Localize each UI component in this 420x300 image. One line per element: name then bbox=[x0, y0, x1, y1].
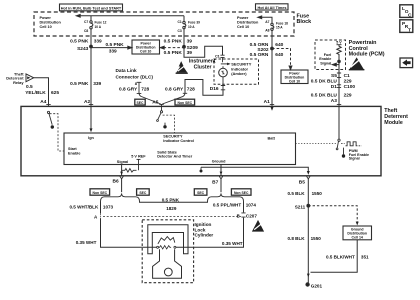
svg-text:39: 39 bbox=[187, 50, 193, 56]
svg-text:728: 728 bbox=[141, 86, 149, 92]
svg-text:0.35 WHT: 0.35 WHT bbox=[222, 241, 243, 246]
svg-text:C3: C3 bbox=[177, 29, 181, 33]
svg-text:229: 229 bbox=[344, 79, 352, 85]
svg-text:Fuse 12: Fuse 12 bbox=[95, 20, 107, 24]
svg-text:Cell 10: Cell 10 bbox=[237, 25, 249, 29]
svg-text:728: 728 bbox=[187, 86, 195, 92]
svg-text:Signal: Signal bbox=[117, 160, 128, 164]
svg-text:(Amber): (Amber) bbox=[231, 71, 247, 76]
svg-text:Batt: Batt bbox=[268, 137, 276, 141]
svg-text:0.5 PNK: 0.5 PNK bbox=[162, 197, 180, 202]
svg-text:Cell 10: Cell 10 bbox=[40, 25, 52, 29]
svg-text:B7: B7 bbox=[212, 179, 218, 185]
svg-text:Cell 10: Cell 10 bbox=[289, 79, 300, 83]
svg-text:Distribution: Distribution bbox=[237, 20, 259, 24]
svg-text:A3: A3 bbox=[331, 98, 337, 104]
svg-text:Connector (DLC): Connector (DLC) bbox=[116, 75, 154, 80]
svg-text:Enable: Enable bbox=[319, 57, 331, 61]
svg-text:1074: 1074 bbox=[246, 203, 257, 208]
svg-text:625: 625 bbox=[51, 90, 59, 96]
svg-text:0.5 DK BLU: 0.5 DK BLU bbox=[311, 79, 338, 85]
svg-text:B5: B5 bbox=[299, 180, 305, 186]
svg-text:Non SEC: Non SEC bbox=[234, 191, 249, 195]
svg-text:YEL/BLK: YEL/BLK bbox=[25, 90, 46, 96]
svg-text:10 A: 10 A bbox=[95, 25, 102, 29]
svg-text:Signal: Signal bbox=[349, 157, 360, 161]
svg-text:C207: C207 bbox=[246, 213, 257, 218]
svg-text:5 V: 5 V bbox=[336, 41, 342, 45]
svg-text:0.5 ORN: 0.5 ORN bbox=[250, 52, 269, 58]
svg-text:A2: A2 bbox=[84, 99, 90, 105]
svg-text:C1: C1 bbox=[344, 73, 350, 79]
svg-text:Ground: Ground bbox=[212, 159, 226, 163]
svg-text:0.35 WHT: 0.35 WHT bbox=[76, 240, 97, 245]
svg-text:39: 39 bbox=[187, 38, 193, 44]
svg-text:S211: S211 bbox=[295, 204, 306, 209]
svg-text:Signal: Signal bbox=[320, 62, 331, 66]
svg-text:Module (PCM): Module (PCM) bbox=[349, 51, 385, 57]
svg-text:S243: S243 bbox=[77, 46, 89, 52]
svg-text:Data Link: Data Link bbox=[116, 68, 137, 73]
svg-text:229: 229 bbox=[344, 93, 352, 99]
svg-text:Cell 10: Cell 10 bbox=[140, 49, 151, 53]
svg-text:640: 640 bbox=[275, 52, 283, 58]
svg-text:0.8 BLK: 0.8 BLK bbox=[287, 236, 305, 241]
svg-text:Detector And Timer: Detector And Timer bbox=[157, 155, 193, 159]
svg-text:T: T bbox=[408, 27, 411, 33]
svg-text:SEC: SEC bbox=[197, 191, 205, 195]
svg-text:Ign: Ign bbox=[88, 136, 94, 140]
svg-text:0.5 PNK: 0.5 PNK bbox=[164, 38, 183, 44]
svg-text:0.5 PNK: 0.5 PNK bbox=[106, 42, 125, 48]
svg-text:1829: 1829 bbox=[166, 206, 177, 211]
svg-text:Cell 14: Cell 14 bbox=[352, 235, 363, 239]
svg-text:SEC: SEC bbox=[137, 101, 145, 105]
svg-text:A1: A1 bbox=[264, 99, 270, 105]
svg-text:C7: C7 bbox=[84, 20, 88, 24]
svg-text:Start: Start bbox=[68, 147, 77, 151]
svg-text:C1: C1 bbox=[215, 55, 220, 59]
svg-text:1550: 1550 bbox=[312, 191, 323, 196]
svg-text:SEC: SEC bbox=[139, 191, 147, 195]
svg-text:Enable: Enable bbox=[68, 151, 80, 155]
svg-text:0.5 DK BLU: 0.5 DK BLU bbox=[311, 93, 338, 99]
svg-text:Distribution: Distribution bbox=[40, 21, 62, 25]
svg-text:S202: S202 bbox=[257, 47, 269, 53]
svg-text:Cylinder: Cylinder bbox=[195, 233, 214, 238]
svg-text:0.5 BLK/WHT: 0.5 BLK/WHT bbox=[326, 255, 355, 260]
svg-text:C8: C8 bbox=[84, 29, 88, 33]
svg-text:Non SEC: Non SEC bbox=[178, 101, 193, 105]
svg-text:1550: 1550 bbox=[311, 236, 322, 241]
svg-text:D1: D1 bbox=[331, 84, 337, 90]
svg-text:0.5 PNK: 0.5 PNK bbox=[70, 81, 89, 87]
svg-text:Instrument: Instrument bbox=[189, 58, 216, 64]
svg-text:0.8 GRY: 0.8 GRY bbox=[119, 86, 138, 92]
svg-text:0.5 PNK: 0.5 PNK bbox=[164, 50, 183, 56]
svg-text:1073: 1073 bbox=[103, 205, 114, 210]
svg-text:C: C bbox=[408, 12, 412, 18]
svg-text:Block: Block bbox=[297, 19, 312, 25]
svg-text:A8: A8 bbox=[265, 28, 269, 32]
svg-text:Fuel: Fuel bbox=[324, 53, 332, 57]
svg-text:SECURITY: SECURITY bbox=[163, 134, 183, 138]
svg-text:10 A: 10 A bbox=[188, 25, 195, 29]
svg-text:15 A: 15 A bbox=[276, 26, 283, 30]
svg-text:339: 339 bbox=[109, 49, 117, 55]
svg-text:0.8 GRY: 0.8 GRY bbox=[165, 86, 184, 92]
svg-text:351: 351 bbox=[361, 255, 369, 260]
svg-text:Power: Power bbox=[40, 16, 52, 20]
svg-text:C1: C1 bbox=[177, 20, 181, 24]
svg-text:G201: G201 bbox=[311, 283, 323, 288]
svg-text:C100: C100 bbox=[344, 84, 356, 90]
svg-text:A7: A7 bbox=[265, 20, 269, 24]
svg-text:Fuse 39: Fuse 39 bbox=[188, 20, 200, 24]
svg-text:Hot At All Times: Hot At All Times bbox=[258, 6, 287, 10]
svg-text:0.5 PNK: 0.5 PNK bbox=[70, 38, 89, 44]
svg-text:Non SEC: Non SEC bbox=[93, 191, 108, 195]
svg-text:339: 339 bbox=[93, 81, 101, 87]
svg-text:D16: D16 bbox=[210, 86, 219, 92]
svg-text:Cluster: Cluster bbox=[194, 65, 212, 71]
svg-text:640: 640 bbox=[275, 42, 283, 48]
svg-text:Indicator Control: Indicator Control bbox=[163, 139, 194, 143]
svg-text:5 V REF: 5 V REF bbox=[131, 155, 146, 159]
svg-text:A4: A4 bbox=[40, 99, 46, 105]
svg-text:S5: S5 bbox=[331, 73, 337, 79]
svg-text:A5: A5 bbox=[152, 99, 158, 105]
svg-text:Module: Module bbox=[384, 120, 403, 126]
svg-text:Power: Power bbox=[237, 16, 249, 20]
svg-text:0.5: 0.5 bbox=[26, 84, 33, 90]
svg-text:339: 339 bbox=[94, 38, 102, 44]
svg-text:B6: B6 bbox=[113, 179, 119, 185]
svg-text:0.5 BLK: 0.5 BLK bbox=[287, 191, 305, 196]
svg-text:0.5 PPL/WHT: 0.5 PPL/WHT bbox=[213, 203, 242, 208]
svg-text:Hot in RUN, Bulb Test and STAR: Hot in RUN, Bulb Test and START bbox=[61, 6, 122, 10]
svg-text:Relay: Relay bbox=[13, 80, 24, 85]
svg-text:0.5 WHT/BLK: 0.5 WHT/BLK bbox=[69, 205, 99, 210]
